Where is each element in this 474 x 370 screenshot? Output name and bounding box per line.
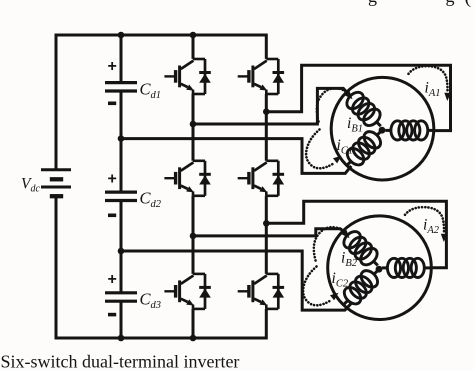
node A2 (col2 lower midpoint) (263, 220, 270, 227)
capacitor Cd2 (105, 192, 137, 200)
wire: column 1 link Q3-Q5 (192, 196, 195, 274)
svg-text:iC1: iC1 (337, 137, 354, 157)
wire: phase C2 from DC-link midpoint 2 to machine M2 (121, 251, 351, 310)
machine M2 stator circle (328, 216, 432, 320)
diode D2 (antiparallel) (273, 59, 285, 94)
wire: column 2 link Q2-Q4 (265, 94, 268, 161)
wire: col1 stub from top bus to Q1 (192, 35, 195, 59)
wire: col1 stub from Q5 emitter to bottom bus (192, 309, 195, 338)
transistor Q6 (IGBT) (238, 274, 279, 309)
transistor Q5 (IGBT) (164, 274, 205, 309)
node: bottom bus junction at column 1 (190, 335, 197, 342)
current arrow iB1 (dashed) (317, 88, 353, 121)
node: top bus junction at column 1 (190, 32, 197, 39)
capacitor Cd1 (105, 83, 137, 91)
label - polarity of Cd3 (108, 313, 116, 317)
wire: phase A2 from node A2 to machine M2 (266, 201, 446, 267)
inductor: M2 phase A winding (382, 258, 431, 277)
diode D3 (antiparallel) (199, 161, 211, 196)
wire: capacitor string segment Cd1-Cd2 (120, 91, 123, 192)
battery Vdc (41, 170, 71, 196)
wire: column 1 link Q1-Q3 (192, 94, 195, 161)
transistor Q1 (IGBT) (164, 59, 205, 94)
svg-text:Cd1: Cd1 (140, 79, 162, 101)
label - polarity of Cd1 (108, 102, 116, 106)
svg-text:+: + (108, 170, 117, 187)
node: M2 neutral point (376, 266, 383, 273)
transistor Q2 (IGBT) (238, 59, 279, 94)
svg-text:Vdc: Vdc (21, 176, 40, 195)
inductor: M1 phase A winding (385, 121, 434, 140)
wire: cap string stub from top bus to Cd1 (120, 35, 123, 83)
inductor: M2 phase B winding (337, 224, 385, 272)
transistor Q4 (IGBT) (238, 161, 279, 196)
cropped text descender fragment 1 (top edge) (368, 0, 377, 7)
wire: phase B2 from node B2 to machine M2 (193, 229, 344, 236)
node A1 (col2 upper midpoint) (263, 108, 270, 115)
inductor: M1 phase C winding (340, 124, 388, 172)
node: DC-link midpoint 1 (between Cd1 and Cd2) (118, 135, 125, 142)
node: top bus junction at capacitor branch (118, 32, 125, 39)
node: M1 neutral point (379, 127, 386, 134)
inductor: M1 phase B winding (340, 85, 388, 133)
wire: phase A1 from node A1 to machine M1 (266, 65, 450, 130)
current arrow iB2 (dashed) (314, 227, 350, 260)
current arrow iA2 (dashed) (405, 207, 447, 242)
diode D6 (antiparallel) (273, 274, 285, 309)
cropped text descender fragment 3 (top edge) (465, 0, 472, 9)
node B2 (col1 lower midpoint) (190, 233, 197, 240)
svg-text:+: + (108, 58, 117, 75)
svg-text:iC2: iC2 (332, 270, 349, 290)
svg-text:iA2: iA2 (423, 217, 440, 237)
machine M1 stator circle (331, 77, 434, 180)
node: bottom bus junction at capacitor branch (118, 335, 125, 342)
current arrow iA1 (dashed) (409, 66, 451, 101)
wire: positive DC bus (top rail) with left rail drop to battery and col2 drop (56, 35, 266, 170)
capacitor Cd3 (105, 293, 137, 301)
wire: capacitor string segment Cd2-Cd3 (120, 201, 123, 293)
svg-text:Cd3: Cd3 (140, 290, 162, 312)
wire: cap string stub from Cd3 to bottom bus (120, 302, 123, 338)
wire: column 2 link Q4-Q6 (265, 196, 268, 274)
node B1 (col1 upper midpoint) (190, 121, 197, 128)
transistor Q3 (IGBT) (164, 161, 205, 196)
node: DC-link midpoint 2 (between Cd2 and Cd3) (118, 248, 125, 255)
inductor: M2 phase C winding (337, 263, 385, 311)
wire: phase B1 from node B1 to machine M1 (193, 88, 347, 124)
current arrow iC1 (dashed) (306, 130, 341, 169)
diode D5 (antiparallel) (199, 274, 211, 309)
diode D4 (antiparallel) (273, 161, 285, 196)
wire: phase C1 from DC-link midpoint 1 to machine M1 (121, 139, 351, 174)
label - polarity of Cd2 (108, 214, 116, 218)
diode D1 (antiparallel) (199, 59, 211, 94)
svg-text:Cd2: Cd2 (140, 189, 162, 211)
current arrow iC2 (dashed) (303, 267, 338, 306)
svg-text:+: + (108, 271, 117, 288)
cropped text descender fragment 2 (top edge) (446, 0, 455, 7)
wire: negative DC bus (bottom rail) (56, 196, 266, 338)
svg-text:iA1: iA1 (425, 80, 441, 100)
svg-text:Six-switch dual-terminal inver: Six-switch dual-terminal inverter (1, 351, 240, 370)
